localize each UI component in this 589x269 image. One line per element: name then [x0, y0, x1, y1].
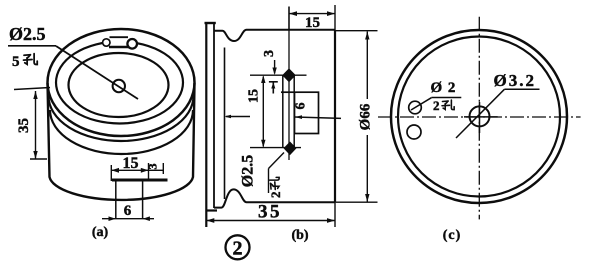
svg-text:35: 35 [258, 202, 282, 223]
view (a) rim hole left [103, 39, 110, 46]
svg-text:15: 15 [247, 89, 262, 103]
dimension diameter 66 (view b) [336, 31, 378, 203]
dimension 15 (view a bottom) [111, 155, 148, 181]
label diameter 2.5 [8, 24, 56, 46]
view (c) center hole [464, 102, 498, 133]
svg-text:15: 15 [305, 15, 320, 31]
view (a) rim lower contour arc 2 [50, 110, 193, 154]
svg-text:2: 2 [268, 192, 283, 199]
dimension 6 (view a) [102, 203, 154, 221]
svg-text:(b): (b) [291, 228, 308, 243]
svg-text:(a): (a) [92, 225, 109, 240]
label 5 holes (5 kong) [12, 54, 37, 70]
svg-text:15: 15 [123, 155, 139, 172]
view (b) body outline top edge with groove dip [214, 30, 335, 41]
view (b) body bottom edge with groove bump [214, 189, 335, 207]
view (a) rim lower contour arc 1 [49, 96, 194, 141]
view (a) rim hole right [127, 39, 137, 49]
view (a) terminal plate [112, 180, 168, 219]
label diameter 2.5 two holes (view b, rotated) [240, 153, 285, 199]
view (c) horizontal centerline [378, 116, 581, 118]
view (b) extension line through bottom hole [250, 147, 301, 149]
view (a) inner face ellipse [69, 53, 169, 117]
dimension 3 lower reference tick (view b) [269, 82, 278, 94]
dimension 3 (view a bottom small) [146, 163, 164, 174]
svg-text:3: 3 [146, 164, 160, 170]
view (a) cylinder silhouette [48, 83, 195, 200]
svg-text:5: 5 [12, 54, 20, 70]
svg-text:2: 2 [233, 238, 243, 260]
dimension 35 (view a) [14, 88, 50, 160]
view (a) leader line from label to center hole [56, 46, 138, 99]
view (b) left flange [205, 23, 218, 227]
view (a) center hole [113, 80, 125, 92]
svg-text:(c): (c) [443, 228, 462, 243]
svg-text:6: 6 [294, 103, 309, 110]
svg-text:Ø 2: Ø 2 [431, 80, 457, 96]
dimension 35 (view b) [206, 202, 335, 228]
view (a) rim ring ellipse [56, 42, 183, 124]
svg-text:Ø2.5: Ø2.5 [240, 155, 257, 187]
view (b) slot edges [283, 75, 294, 148]
view (b) extension line through top hole [250, 74, 307, 76]
svg-text:3: 3 [262, 50, 277, 57]
view (b) inner face line [224, 48, 226, 200]
svg-text:Ø66: Ø66 [358, 103, 374, 130]
svg-text:Ø2.5: Ø2.5 [9, 24, 46, 44]
svg-text:2: 2 [433, 98, 440, 113]
view (c) inner circle [398, 37, 560, 197]
view (b) magnet rectangle [295, 92, 319, 133]
svg-text:35: 35 [16, 118, 32, 133]
view (b) horizontal center mark left [225, 115, 251, 118]
view (c) small hole upper [409, 101, 422, 114]
dimension 15 vertical (view b) [247, 75, 266, 147]
view (c) leader line diameter 2 [411, 98, 431, 110]
view (b) centerline segment with arrow through magnet [295, 115, 341, 119]
label diameter 2 [431, 80, 462, 113]
view (c) vertical centerline [478, 17, 480, 220]
view (c) outer circle [391, 30, 567, 203]
dimension 15 top (view b) [289, 5, 335, 31]
svg-text:Ø3.2: Ø3.2 [494, 71, 536, 90]
view (c) small hole lower [407, 125, 421, 139]
dimension 3 (view b) [262, 50, 277, 75]
view (b) hole centerline [288, 7, 290, 161]
figure number circled 2 [226, 235, 250, 259]
view (a) outer top ellipse [48, 29, 195, 136]
view (b) top hole (filled) [282, 68, 296, 82]
view (c) leader line diameter 3.2 [456, 89, 540, 138]
view (b) bottom hole (filled) [284, 142, 297, 156]
view (a) terminal block on rim [109, 37, 129, 47]
view (b) body right edge [334, 30, 336, 202]
view (b) magnet top line extension across slot [281, 91, 295, 93]
svg-text:6: 6 [124, 203, 132, 219]
